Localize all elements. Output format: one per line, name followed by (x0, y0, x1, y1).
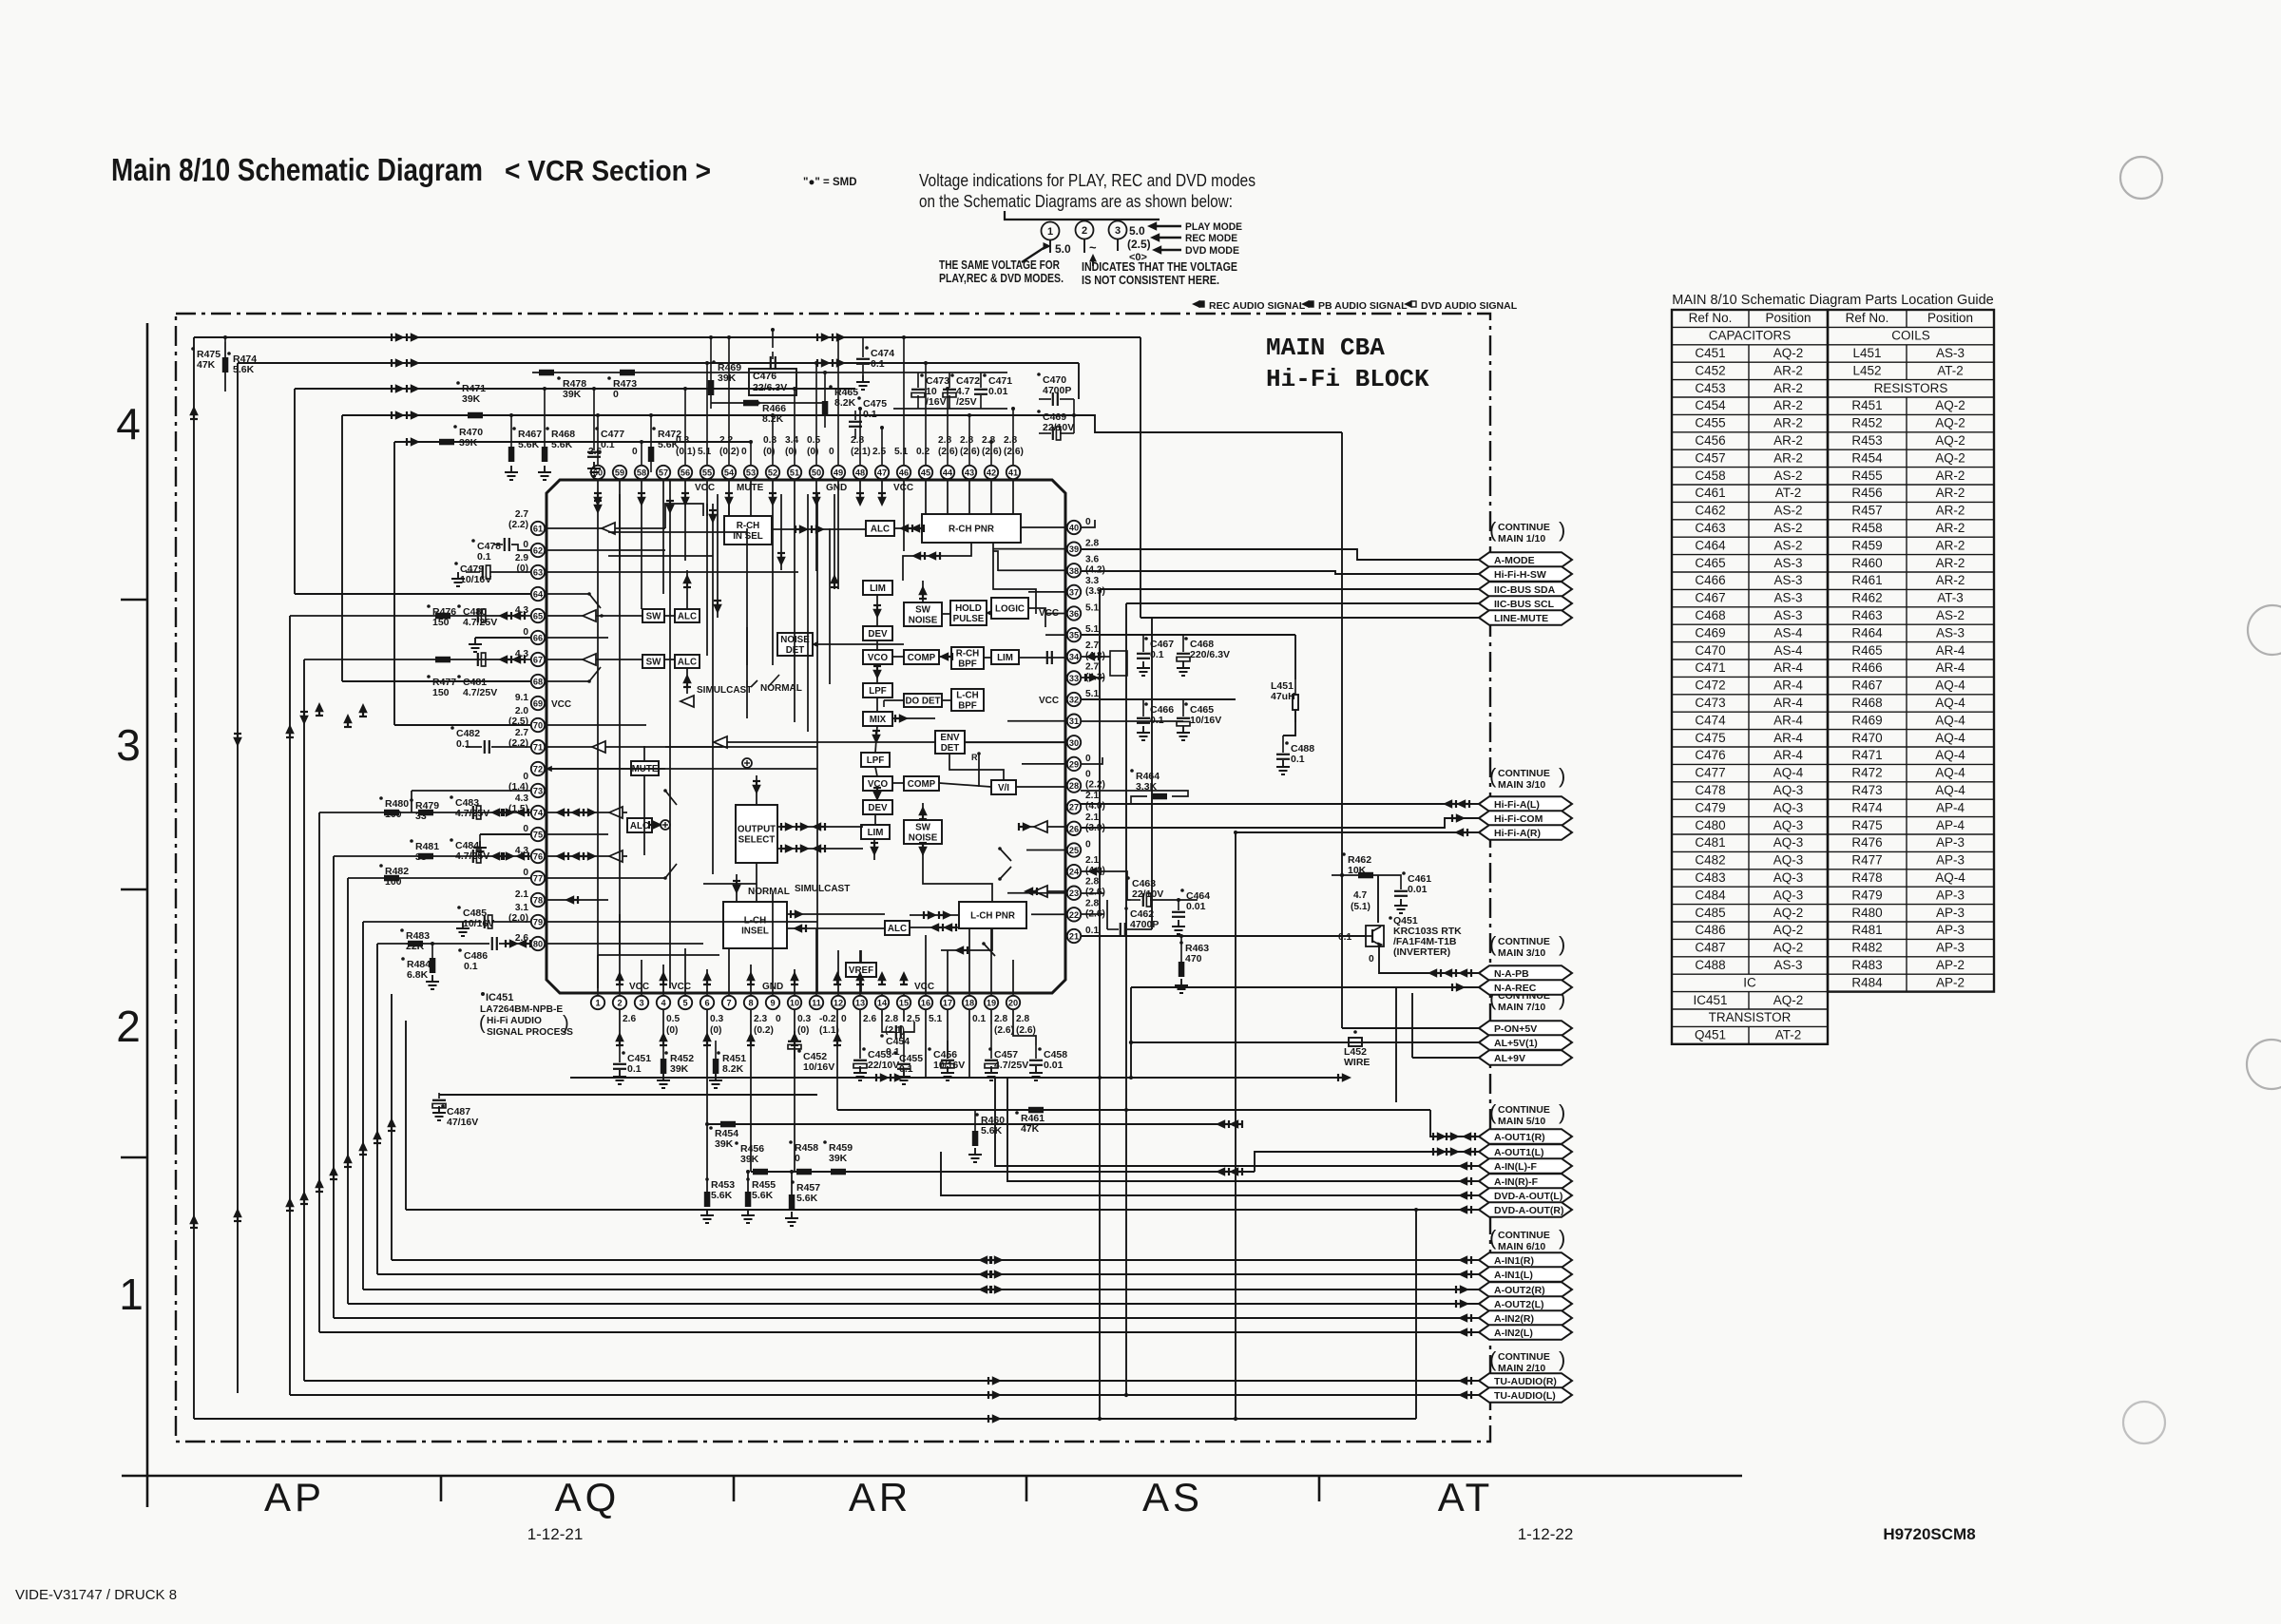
svg-text:2: 2 (1082, 225, 1087, 237)
svg-text:2.8: 2.8 (885, 1014, 898, 1024)
svg-text:PLAY,REC & DVD MODES.: PLAY,REC & DVD MODES. (939, 272, 1064, 285)
resistor R477 and capacitor C481 row pin67 (427, 675, 431, 678)
svg-text:5.6K: 5.6K (752, 1190, 774, 1201)
svg-text:AR-2: AR-2 (1773, 363, 1803, 377)
internal horizontal pin72 row extension (665, 768, 817, 770)
svg-text:R460: R460 (1851, 556, 1882, 570)
svg-text:C475: C475 (1695, 731, 1725, 745)
svg-text:DO DET: DO DET (905, 697, 940, 707)
resistor R467 (512, 427, 516, 430)
resistor R476 and capacitor C480 row pin65 (427, 604, 431, 608)
svg-text:C468: C468 (1695, 608, 1725, 622)
IC451 top pin circles 60-41 (591, 466, 1020, 479)
wire outer bottom loop vertical (1415, 1210, 1417, 1419)
svg-text:AR-2: AR-2 (1773, 416, 1803, 430)
wire IIC-BUS SCL lead (1126, 602, 1479, 604)
capacitor C485 (457, 906, 461, 909)
svg-text:3.1: 3.1 (515, 903, 528, 913)
internal horizontal upper link (608, 555, 713, 557)
svg-text:150: 150 (432, 687, 450, 698)
svg-text:(5.1): (5.1) (1351, 902, 1371, 912)
svg-text:C461: C461 (1695, 486, 1725, 500)
svg-text:0: 0 (776, 1014, 781, 1024)
wire pin24 row to C463 (1081, 871, 1131, 900)
svg-text:R466: R466 (1851, 660, 1882, 675)
svg-text:39K: 39K (715, 1138, 734, 1150)
svg-text:A-IN2(L): A-IN2(L) (1494, 1328, 1533, 1339)
block DEV 1 (863, 626, 892, 640)
IC451 left pin circles 61-80 (531, 522, 545, 950)
internal wire output select bottom feed (756, 863, 757, 884)
connector tag Hi-Fi-A(L) (1479, 796, 1572, 812)
resistor R475 (191, 347, 195, 351)
wire P-ON+5V tag lead (1342, 1027, 1479, 1029)
svg-text:SELECT: SELECT (738, 835, 776, 846)
svg-text:0.1: 0.1 (627, 1063, 642, 1075)
svg-text:Ref No.: Ref No. (1689, 311, 1733, 325)
svg-text:Main 8/10 Schematic Diagram: Main 8/10 Schematic Diagram (111, 152, 483, 187)
internal arrows below top edge (593, 505, 603, 514)
internal wire R-CH IN SEL to ALC (772, 528, 866, 530)
svg-text:(0.2): (0.2) (754, 1025, 774, 1036)
svg-text:R463: R463 (1851, 608, 1882, 622)
svg-text:50: 50 (812, 468, 821, 478)
svg-text:R473: R473 (1851, 783, 1882, 797)
svg-text:AR-2: AR-2 (1773, 450, 1803, 465)
internal long vertical center-right (829, 528, 831, 684)
wire pin33 stub (1081, 677, 1104, 678)
wire IIC-BUS SDA vertical (1099, 589, 1101, 1419)
internal horizontal pin63 row extension (627, 571, 798, 573)
wire N-A-REC vertical lower (1395, 987, 1397, 1102)
svg-text:ALC: ALC (678, 658, 697, 668)
capacitor C469 (1037, 410, 1041, 413)
svg-text:AR-4: AR-4 (1773, 731, 1803, 745)
svg-text:4.7/25V: 4.7/25V (463, 617, 497, 628)
svg-text:COILS: COILS (1891, 329, 1930, 343)
svg-text:AT-2: AT-2 (1775, 486, 1802, 500)
internal wire VREF stub (860, 950, 862, 963)
internal switch near pin64 (589, 594, 601, 608)
wire pin27 Hi-Fi-AL lead (1081, 803, 1479, 805)
svg-text:AQ-2: AQ-2 (1773, 906, 1804, 920)
svg-text:(4.0): (4.0) (1085, 801, 1105, 812)
wire R457 drop (791, 1172, 793, 1194)
svg-text:32: 32 (1069, 696, 1079, 705)
svg-text:AS-3: AS-3 (1773, 573, 1802, 587)
internal deep vertical pin60 feed (597, 480, 599, 988)
left ruler tick 4-3 (121, 599, 147, 602)
wire pin17 drop (947, 1009, 949, 1059)
capacitor C476 in box (749, 369, 796, 395)
svg-text:Hi-Fi-H-SW: Hi-Fi-H-SW (1494, 569, 1546, 581)
svg-text:42: 42 (987, 468, 996, 478)
internal wire L-CH PNR to ALC row (910, 927, 959, 928)
svg-text:58: 58 (637, 468, 646, 478)
svg-text:39: 39 (1069, 545, 1079, 554)
internal wire LIM1 chain down (876, 595, 878, 626)
svg-text:0: 0 (523, 772, 528, 782)
wire C470 junction to P-ON vertical (1074, 415, 1342, 432)
svg-text:63: 63 (533, 568, 543, 578)
svg-text:/25V: /25V (956, 396, 977, 408)
capacitor C488 right (1285, 741, 1289, 745)
capacitor C472 (950, 373, 954, 377)
internal wire ALC3 down (686, 668, 688, 694)
svg-text:R454: R454 (1851, 450, 1883, 465)
wire caps C473 row top (893, 372, 1007, 373)
wire top bus 3 drop (294, 389, 296, 594)
svg-text:38: 38 (1069, 566, 1079, 576)
wire top pin drops (596, 335, 1015, 466)
resistor R456 (735, 1141, 738, 1145)
svg-text:LPF: LPF (867, 755, 885, 766)
svg-text:23: 23 (1069, 888, 1079, 898)
wire Hi-Fi-AR lead (1236, 831, 1479, 833)
internal wire COMP1 to R-CH BPF (939, 656, 951, 658)
svg-text:27: 27 (1069, 803, 1079, 812)
svg-text:VCC: VCC (629, 982, 649, 992)
svg-text:(: ( (1489, 1226, 1497, 1250)
connector tag A-IN(L)-F (1479, 1158, 1572, 1174)
svg-text:PB AUDIO SIGNAL: PB AUDIO SIGNAL (1318, 300, 1408, 312)
svg-text:WIRE: WIRE (1344, 1057, 1370, 1068)
capacitor C461 right (1402, 871, 1406, 875)
block LPF 1 (863, 683, 892, 697)
svg-text:8.2K: 8.2K (722, 1063, 744, 1075)
svg-text:C478: C478 (1695, 783, 1725, 797)
svg-text:LINE-MUTE: LINE-MUTE (1494, 613, 1548, 624)
svg-text:R477: R477 (1851, 853, 1882, 868)
svg-text:C484: C484 (1695, 888, 1726, 902)
block SW NOISE 1 (904, 602, 942, 626)
svg-text:R-CH: R-CH (737, 521, 760, 531)
block R-CH PNR (922, 514, 1021, 543)
svg-text:1: 1 (595, 999, 600, 1008)
resistor R466 (757, 401, 760, 405)
internal wire LIM3 down (873, 839, 875, 860)
svg-text:L451: L451 (1852, 346, 1881, 360)
svg-text:49: 49 (834, 468, 843, 478)
capacitor C455 (893, 1051, 897, 1055)
svg-text:AP-4: AP-4 (1936, 818, 1965, 832)
wire top bus 3 (295, 388, 855, 390)
svg-text:18: 18 (965, 999, 974, 1008)
svg-text:73: 73 (533, 787, 543, 796)
svg-text:AT-2: AT-2 (1775, 1028, 1802, 1042)
capacitor C465 right (1184, 702, 1188, 706)
internal wire pin38 hook (993, 551, 998, 571)
wire top bus 4 drop (341, 415, 343, 681)
svg-text:COMP: COMP (908, 779, 936, 790)
svg-text:NOISE: NOISE (909, 616, 938, 626)
svg-text:LOGIC: LOGIC (995, 604, 1025, 615)
svg-text:AQ-2: AQ-2 (1773, 993, 1804, 1007)
internal wire down from R-CH PNR to comp row (993, 543, 1036, 614)
capacitor C473 (920, 373, 924, 377)
svg-text:-0.2: -0.2 (819, 1014, 836, 1024)
voltage legend circle 1 (1042, 222, 1060, 240)
internal wire MIX to LPF2 (875, 726, 877, 753)
capacitor C454 (880, 1034, 884, 1038)
svg-text:3: 3 (639, 999, 643, 1008)
resistor R472 (652, 427, 656, 430)
svg-text:19: 19 (987, 999, 996, 1008)
capacitor C471 (983, 373, 987, 377)
block SW 2 (642, 655, 664, 668)
svg-text:IS NOT CONSISTENT HERE.: IS NOT CONSISTENT HERE. (1082, 274, 1219, 287)
svg-text:IIC-BUS SDA: IIC-BUS SDA (1494, 584, 1556, 596)
svg-text:0: 0 (841, 1014, 847, 1024)
svg-text:0.01: 0.01 (1044, 1060, 1064, 1071)
svg-text:AR-4: AR-4 (1773, 748, 1803, 762)
svg-text:C486: C486 (1695, 923, 1725, 937)
connector tag A-IN2(L) (1479, 1325, 1572, 1340)
svg-text:3.6: 3.6 (1085, 554, 1099, 564)
svg-text:5.0: 5.0 (1129, 224, 1145, 238)
block LOGIC (991, 598, 1028, 619)
bottom ruler line (122, 1475, 1742, 1478)
svg-text:22: 22 (1069, 910, 1079, 920)
svg-text:3: 3 (116, 720, 141, 770)
svg-text:VIDE-V31747 / DRUCK 8: VIDE-V31747 / DRUCK 8 (15, 1587, 177, 1603)
svg-text:10: 10 (790, 999, 799, 1008)
svg-text:4.7/25V: 4.7/25V (463, 687, 497, 698)
svg-text:L452: L452 (1852, 363, 1881, 377)
svg-text:470: 470 (1185, 953, 1202, 965)
svg-text:H9720SCM8: H9720SCM8 (1883, 1525, 1975, 1543)
connector tag LINE-MUTE (1479, 610, 1572, 625)
internal wire L-CH PNR bottom link (941, 928, 992, 950)
svg-text:L-CH: L-CH (956, 691, 978, 701)
svg-text:2.1: 2.1 (1085, 812, 1099, 823)
svg-text:SIGNAL PROCESS: SIGNAL PROCESS (487, 1027, 573, 1038)
svg-text:5: 5 (682, 999, 687, 1008)
internal wire V/I to pin28 (1016, 786, 1065, 788)
IC451 reference label (481, 992, 485, 996)
wire row pin76 with arrows (334, 855, 530, 857)
svg-text:AQ-4: AQ-4 (1935, 731, 1965, 745)
wire pin75 gnd stub (480, 833, 530, 835)
svg-text:L-CH PNR: L-CH PNR (970, 911, 1015, 922)
svg-text:DVD-A-OUT(R): DVD-A-OUT(R) (1494, 1205, 1564, 1216)
svg-text:0.3: 0.3 (797, 1014, 811, 1024)
svg-text:2.8: 2.8 (1004, 435, 1017, 446)
svg-text:AR-2: AR-2 (1936, 504, 1965, 518)
svg-text:AR-4: AR-4 (1773, 678, 1803, 693)
svg-text:AQ-2: AQ-2 (1773, 346, 1804, 360)
svg-text:(0): (0) (666, 1025, 678, 1036)
resistor R455 (746, 1177, 750, 1181)
bottom ruler tick (1025, 1476, 1028, 1501)
svg-text:AQ-3: AQ-3 (1773, 835, 1804, 850)
svg-text:DVD MODE: DVD MODE (1185, 245, 1239, 257)
svg-text:74: 74 (533, 809, 544, 818)
svg-text:0.5: 0.5 (807, 435, 820, 446)
internal wire simulcast switch upper (746, 627, 748, 665)
wire pin34 stub (1081, 656, 1110, 658)
capacitor C486 (458, 948, 462, 952)
svg-text:0.1: 0.1 (863, 409, 877, 420)
svg-text:9: 9 (770, 999, 775, 1008)
svg-text:(1.1): (1.1) (819, 1025, 839, 1036)
svg-text:A-IN1(R): A-IN1(R) (1494, 1255, 1534, 1267)
svg-text:MAIN 8/10 Schematic Diagram Pa: MAIN 8/10 Schematic Diagram Parts Locati… (1672, 293, 1993, 308)
svg-text:80: 80 (533, 940, 543, 949)
wire pin40 hook (1081, 520, 1095, 527)
svg-text:R478: R478 (1851, 870, 1882, 885)
wire pin14 C454 bridge (881, 1009, 883, 1022)
connector tag TU-AUDIO(R) (1479, 1373, 1572, 1388)
svg-text:5.1: 5.1 (894, 447, 908, 457)
hole punch top right (2120, 157, 2162, 199)
connector tag DVD-A-OUT(R) (1479, 1202, 1572, 1217)
connector tag A-IN(R)-F (1479, 1174, 1572, 1189)
svg-text:REC MODE: REC MODE (1185, 233, 1237, 244)
internal wire R-CH PNR down bus (903, 543, 971, 581)
voltage legend circle 2 (1076, 221, 1094, 239)
svg-text:AQ-2: AQ-2 (1773, 941, 1804, 955)
svg-text:AR-4: AR-4 (1773, 696, 1803, 710)
internal vertical bus C (807, 494, 809, 732)
svg-text:3.3: 3.3 (1085, 576, 1099, 586)
left ruler line (146, 323, 149, 1507)
svg-text:39K: 39K (718, 373, 737, 384)
wire R467 R468 drops (510, 415, 512, 442)
svg-text:5.1: 5.1 (929, 1014, 942, 1024)
svg-text:2.8: 2.8 (851, 435, 864, 446)
wire nest vertical 9 (376, 944, 378, 1274)
block DO DET (904, 694, 942, 707)
capacitor C458 (1038, 1047, 1042, 1051)
svg-text:AP-2: AP-2 (1936, 958, 1965, 972)
svg-text:AS-4: AS-4 (1773, 643, 1803, 658)
connector tag Hi-Fi-COM (1479, 811, 1572, 826)
svg-text:R451: R451 (1851, 398, 1882, 412)
wire nest vertical 2 (237, 363, 239, 1393)
svg-text:0.01: 0.01 (1186, 901, 1206, 912)
wire A-IN1R lead (392, 1259, 1479, 1261)
wire nest vertical 1 (193, 337, 195, 1419)
svg-text:(2.2): (2.2) (508, 520, 528, 530)
svg-text:75: 75 (533, 831, 543, 840)
wire Hi-Fi-H-SW lead (1081, 571, 1479, 574)
svg-text:INSEL: INSEL (741, 927, 769, 937)
svg-text:28: 28 (1069, 781, 1079, 791)
svg-text:64: 64 (533, 590, 544, 600)
svg-text:CAPACITORS: CAPACITORS (1709, 329, 1792, 343)
svg-text:(0): (0) (710, 1025, 721, 1036)
internal long vertical center-left (746, 528, 748, 718)
svg-text:0: 0 (523, 824, 528, 834)
wire LINE-MUTE vertical (1151, 618, 1153, 929)
wire A-INR-F lead (1007, 1078, 1479, 1181)
svg-text:2.5: 2.5 (872, 447, 886, 457)
connector tag A-OUT2(R) (1479, 1282, 1572, 1297)
svg-text:IC: IC (1743, 975, 1756, 989)
internal right pin horizontal wires (964, 527, 1065, 914)
svg-text:ALC: ALC (888, 924, 907, 934)
capacitor C466 right (1144, 702, 1148, 706)
svg-text:AQ-3: AQ-3 (1773, 853, 1804, 868)
wire R461 row 1168 (837, 1109, 1430, 1111)
svg-text:0: 0 (1085, 754, 1091, 764)
svg-text:5.1: 5.1 (698, 447, 711, 457)
resistor R479 (410, 798, 413, 802)
svg-text:N-A-PB: N-A-PB (1494, 968, 1529, 980)
svg-text:DET: DET (941, 743, 960, 754)
wire A-OUT1L lead (1255, 1152, 1479, 1172)
wire Q451 collector to N-A-PB (1379, 946, 1479, 973)
svg-text:AS-2: AS-2 (1773, 504, 1802, 518)
wire A-OUT2L lead (348, 1303, 1479, 1305)
svg-text:AS-3: AS-3 (1773, 556, 1802, 570)
svg-text:2.8: 2.8 (982, 435, 995, 446)
svg-text:1: 1 (119, 1270, 144, 1319)
transistor Q451 (1366, 926, 1384, 946)
block VCO 2 (863, 776, 892, 791)
svg-text:CONTINUE: CONTINUE (1498, 936, 1550, 947)
svg-text:(: ( (1489, 1100, 1497, 1124)
svg-text:AQ-3: AQ-3 (1773, 818, 1804, 832)
svg-text:R464: R464 (1851, 625, 1883, 640)
wire R456 row 1233 (751, 1171, 1255, 1173)
internal switch near pin77 (665, 864, 677, 878)
internal wire pin76 row (546, 855, 627, 857)
wire pin32 row (1081, 698, 1236, 700)
internal plus junction circle upper (742, 758, 752, 768)
svg-text:AP-4: AP-4 (1936, 800, 1965, 814)
wire top pin inner arrows (593, 493, 887, 506)
svg-text:AP-3: AP-3 (1936, 941, 1965, 955)
svg-text:AQ-4: AQ-4 (1773, 766, 1804, 780)
svg-text:5.6K: 5.6K (658, 439, 680, 450)
svg-text:C456: C456 (1695, 433, 1725, 448)
capacitor C457 (988, 1047, 992, 1051)
svg-text:(: ( (1489, 518, 1497, 542)
svg-text:AQ-3: AQ-3 (1773, 800, 1804, 814)
wire AL+9V tag lead (1412, 1057, 1479, 1059)
svg-text:0: 0 (1369, 954, 1374, 965)
svg-text:AL+9V: AL+9V (1494, 1053, 1525, 1064)
svg-text:21: 21 (1069, 932, 1079, 942)
svg-text:0.1: 0.1 (456, 738, 470, 750)
svg-text:62: 62 (533, 546, 543, 556)
bottom ruler tick (1318, 1476, 1321, 1501)
internal horizontal crossing upper (608, 531, 747, 533)
internal wire pin78 row (546, 899, 608, 901)
svg-text:Hi-Fi-COM: Hi-Fi-COM (1494, 813, 1543, 825)
svg-text:BPF: BPF (958, 659, 977, 670)
svg-text:39K: 39K (829, 1153, 848, 1164)
internal wire output select feed (756, 775, 757, 805)
resistor R473 (607, 376, 611, 380)
svg-text:Q451: Q451 (1695, 1028, 1726, 1042)
wire A-IN2R lead (334, 1317, 1479, 1319)
block DEV 2 (863, 800, 892, 814)
svg-text:VCC: VCC (551, 699, 571, 710)
svg-text:56: 56 (680, 468, 690, 478)
svg-text:VCC: VCC (695, 483, 715, 493)
left ruler tick 3-2 (121, 888, 147, 891)
svg-text:3: 3 (1115, 225, 1121, 237)
svg-text:C451: C451 (1695, 346, 1725, 360)
svg-text:51: 51 (790, 468, 799, 478)
capacitor C468 right (1184, 637, 1188, 640)
svg-text:3.4: 3.4 (785, 435, 798, 446)
resistor R453 (705, 1177, 709, 1181)
svg-text:A-MODE: A-MODE (1494, 555, 1535, 566)
